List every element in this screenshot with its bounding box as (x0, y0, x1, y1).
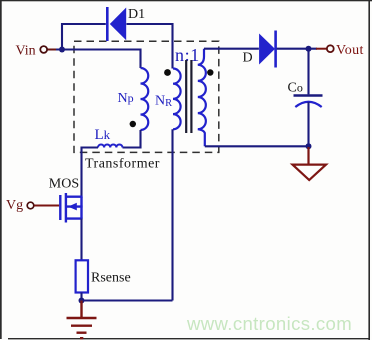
diode D (259, 31, 276, 68)
junction at Vin node (59, 47, 65, 53)
svg-text:www.cntronics.com: www.cntronics.com (186, 313, 352, 334)
wire diode D to output junction (277, 48, 317, 50)
wire Vin junction up to clamp rail (62, 24, 106, 50)
wire secondary bottom rail (205, 145, 309, 147)
phase dot Np (130, 121, 136, 127)
svg-text:Lk: Lk (95, 127, 111, 143)
wire Vin node to Np top (56, 50, 141, 69)
svg-text:MOS: MOS (49, 177, 79, 192)
ground secondary (293, 147, 327, 180)
resistor Rsense (76, 260, 88, 292)
svg-text:Rsense: Rsense (91, 270, 131, 285)
mosfet MOS (60, 193, 82, 223)
diode D1 (107, 7, 126, 41)
svg-text:Vin: Vin (16, 43, 36, 58)
wire NR bottom to ground rail (171, 129, 173, 300)
inductor Lk (98, 144, 122, 147)
wire Co to secondary bottom rail (307, 102, 309, 146)
transformer core (186, 60, 191, 133)
earth ground (67, 301, 97, 339)
wire Rsense to ground node (80, 293, 82, 301)
node Vg (6, 198, 34, 213)
phase dot NR (164, 69, 171, 76)
junction ground node (79, 298, 85, 304)
winding NR (173, 69, 181, 130)
node Vin (16, 43, 58, 58)
svg-text:Vout: Vout (336, 43, 364, 58)
svg-text:n:1: n:1 (175, 45, 200, 65)
junction secondary ground node (306, 143, 312, 149)
winding secondary (198, 49, 206, 147)
wire clamp rail to NR top (127, 24, 173, 69)
svg-text:Vg: Vg (6, 198, 23, 213)
node Vout (316, 43, 364, 58)
phase dot secondary (207, 69, 213, 75)
wire Vg to MOS gate (34, 205, 59, 207)
svg-text:Co: Co (288, 81, 303, 96)
svg-text:Np: Np (118, 91, 134, 106)
junction output node (306, 46, 312, 52)
svg-text:D: D (243, 50, 253, 65)
capacitor Co (294, 96, 323, 108)
wire output junction to Co (307, 49, 309, 95)
winding Np (141, 68, 149, 130)
wire secondary top to diode D (204, 48, 259, 50)
svg-text:D1: D1 (128, 7, 145, 22)
wire MOS source to Rsense (80, 219, 82, 261)
wire ground rail (82, 299, 173, 301)
wire Lk to MOS drain (82, 148, 99, 197)
svg-text:Transformer: Transformer (85, 157, 160, 172)
wire Np bottom to Lk (123, 130, 141, 148)
transformer dashed box (74, 41, 219, 152)
